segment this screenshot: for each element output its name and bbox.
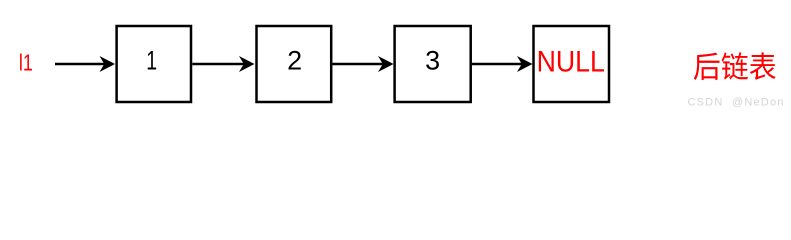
svg-text:l1: l1 [19,50,33,76]
svg-text:3: 3 [425,46,440,76]
svg-text:CSDN @NeDon: CSDN @NeDon [688,97,785,109]
svg-text:1: 1 [146,45,157,75]
svg-text:2: 2 [287,46,302,76]
svg-text:NULL: NULL [537,45,605,79]
